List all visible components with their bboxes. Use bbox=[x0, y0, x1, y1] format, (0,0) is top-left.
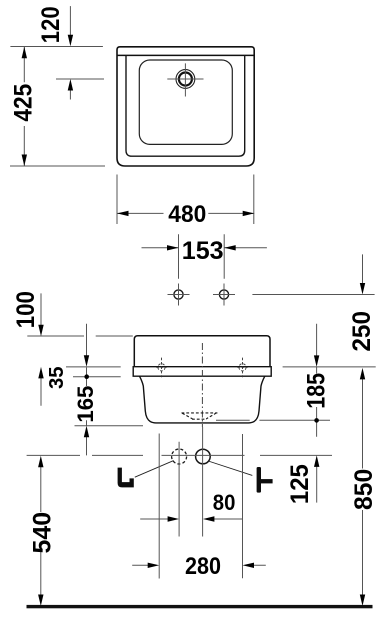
svg-text:250: 250 bbox=[348, 311, 376, 352]
svg-text:120: 120 bbox=[37, 6, 65, 43]
svg-text:125: 125 bbox=[286, 464, 314, 504]
svg-text:280: 280 bbox=[185, 553, 221, 580]
svg-text:540: 540 bbox=[29, 512, 57, 554]
svg-text:850: 850 bbox=[350, 469, 378, 510]
svg-text:185: 185 bbox=[303, 373, 331, 409]
svg-text:100: 100 bbox=[12, 291, 40, 328]
svg-text:80: 80 bbox=[213, 490, 236, 515]
svg-text:153: 153 bbox=[182, 237, 224, 265]
svg-text:165: 165 bbox=[73, 386, 98, 423]
svg-text:480: 480 bbox=[168, 201, 206, 228]
svg-text:35: 35 bbox=[46, 366, 68, 389]
svg-text:425: 425 bbox=[10, 84, 38, 122]
